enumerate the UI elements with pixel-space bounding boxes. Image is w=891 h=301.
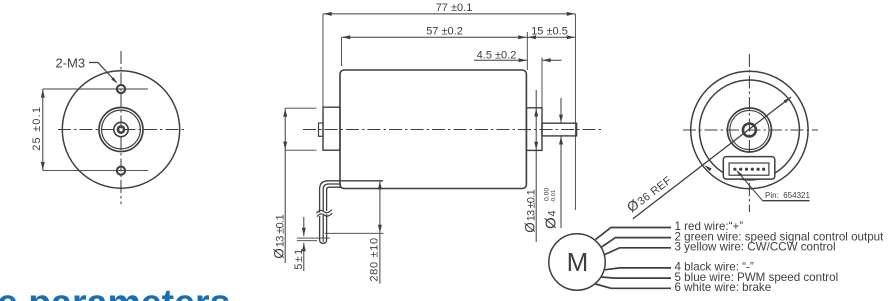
heading (cut off): e parameters <box>0 284 230 301</box>
extension line wire tick top <box>297 237 330 239</box>
wire tip <box>320 237 327 243</box>
svg-text:25 ±0.1: 25 ±0.1 <box>31 107 43 151</box>
svg-text:4: 4 <box>547 210 559 216</box>
dimension 15 ±0.5 <box>527 36 575 38</box>
extension line body right edge <box>526 32 528 70</box>
motor wire 5 <box>601 277 671 278</box>
svg-text:15 ±0.5: 15 ±0.5 <box>531 26 568 38</box>
svg-text:Pin: 654321: Pin: 654321 <box>765 191 810 200</box>
svg-text:5±1: 5±1 <box>293 249 305 270</box>
svg-text:0.00: 0.00 <box>544 188 551 201</box>
svg-text:6 white wire: brake: 6 white wire: brake <box>675 281 772 294</box>
dimension Ø4 <box>560 98 562 123</box>
svg-text:57 ±0.2: 57 ±0.2 <box>426 26 463 38</box>
connector outer shell <box>723 157 775 180</box>
rear view inner ring <box>699 80 799 180</box>
dimension 57 ±0.2 <box>342 36 527 38</box>
dimension 25 ±0.1 <box>42 89 44 171</box>
motor wire 4 <box>605 268 671 270</box>
shaft <box>542 123 577 136</box>
motor wire 6 <box>596 284 672 288</box>
rear end cap <box>323 107 340 150</box>
wire outer <box>320 181 341 238</box>
front view vertical centerline <box>120 51 122 204</box>
svg-text:Ø: Ø <box>543 217 560 229</box>
motor wire 3 <box>605 248 671 255</box>
dimension 280 ±10 <box>379 181 381 284</box>
rear view horizontal centerline <box>683 129 818 131</box>
svg-text:-0.01: -0.01 <box>551 190 557 203</box>
wire middle <box>323 184 341 238</box>
extension line right of 77 <box>574 14 576 210</box>
motor wire 2 <box>602 238 672 247</box>
dimension 77 ±0.1 <box>323 13 575 15</box>
extension line wire tick bottom <box>297 240 318 242</box>
motor symbol circle <box>549 234 605 290</box>
svg-text:Ø: Ø <box>522 222 537 233</box>
dimension Ø13 right <box>535 90 537 242</box>
motor wire 1 <box>596 228 672 240</box>
mounting hole bottom <box>117 167 125 175</box>
svg-text:13 ±0.1: 13 ±0.1 <box>525 189 537 221</box>
extension line boss right edge <box>541 58 543 108</box>
extension line rear boss top <box>285 107 316 109</box>
front view boss inner circle <box>102 110 141 149</box>
front view boss outer circle <box>99 108 143 152</box>
mounting hole top <box>117 85 125 93</box>
extension line rear boss bottom <box>285 149 316 151</box>
dimension 5±1 <box>303 217 305 236</box>
extension line left of 57 <box>341 37 343 66</box>
svg-text:M: M <box>567 247 589 277</box>
rear view boss outer circle <box>727 108 771 152</box>
pin leader line <box>737 171 762 201</box>
wire inner <box>327 187 341 238</box>
extension line left of 77 <box>322 14 324 133</box>
mounting hole bottom cross line <box>43 170 148 172</box>
front view outer circle <box>62 71 179 188</box>
svg-text:13 ±0.1: 13 ±0.1 <box>274 214 286 247</box>
rear bearing bump <box>319 123 324 136</box>
front boss <box>526 108 542 151</box>
wire break symbol <box>317 210 332 217</box>
rear view vertical centerline <box>748 54 750 212</box>
front view shaft circle <box>114 122 128 136</box>
front view horizontal centerline <box>58 129 185 131</box>
svg-text:2-M3: 2-M3 <box>56 56 86 71</box>
connector inner slot <box>729 163 769 175</box>
rear view boss inner circle <box>730 110 769 149</box>
dimension Ø13 left <box>284 108 286 263</box>
rear view outer circle <box>691 71 808 188</box>
dimension Ø36 REF <box>633 97 791 219</box>
mounting hole top cross line <box>43 88 148 90</box>
extension line wire bottom <box>325 232 384 234</box>
connector pins <box>733 168 736 171</box>
side view centerline <box>303 129 601 131</box>
motor body <box>340 70 526 189</box>
svg-text:280 ±10: 280 ±10 <box>369 238 381 282</box>
svg-text:4.5 ±0.2: 4.5 ±0.2 <box>477 49 517 61</box>
svg-text:Ø: Ø <box>271 248 286 259</box>
front view shaft center <box>118 126 124 132</box>
rear view shaft circle <box>743 124 756 137</box>
extension line wire top <box>340 180 383 182</box>
svg-text:3 yellow wire: CW/CCW control: 3 yellow wire: CW/CCW control <box>675 241 836 254</box>
svg-text:77 ±0.1: 77 ±0.1 <box>436 2 473 14</box>
